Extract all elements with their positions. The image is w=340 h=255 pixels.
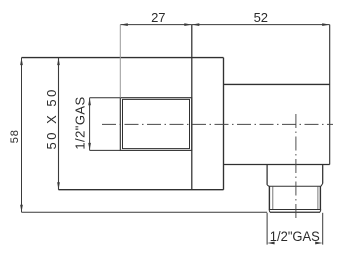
body bottom edge [224, 164, 330, 166]
outlet neck left chamfer [267, 185, 269, 186]
arrow outlet dim left [267, 242, 275, 245]
svg-text:52: 52 [254, 10, 268, 25]
arrow 58 up [20, 58, 23, 66]
wall face line / shared extension of 27 and 52 dims [191, 25, 193, 190]
outlet thread outer left [268, 186, 270, 209]
outlet thread shoulder line [269, 185, 321, 187]
wire top edge of plate with left extension [22, 57, 224, 59]
arrow socket dim down [88, 143, 91, 151]
plate bottom edge [59, 189, 224, 191]
dim line 1/2"GAS socket vertical [89, 98, 91, 151]
outlet bottom chamfer line (inner) [269, 209, 320, 211]
arrow 27 left [120, 23, 128, 26]
outlet neck right chamfer [321, 184, 323, 187]
socket thread inner rect [123, 99, 190, 148]
arrow 58 down [20, 205, 23, 213]
arrow 50 up [57, 58, 60, 66]
outlet thread outer right [319, 186, 321, 209]
outlet thread minor right (thin) [317, 187, 319, 210]
plate side-view right edge [223, 58, 225, 190]
outlet bottom right chamfer [319, 210, 322, 213]
centerline horizontal (dash-dot) [102, 123, 333, 125]
outlet neck right edge [322, 165, 324, 184]
body right edge with 52-dim extension above [329, 25, 331, 165]
arrow socket dim up [88, 98, 91, 106]
socket top extension line [90, 97, 121, 99]
svg-text:27: 27 [151, 10, 165, 25]
outlet thread minor left (thin) [272, 187, 274, 210]
arrow outlet dim right [315, 242, 323, 245]
dim 1/2"GAS outlet left extension [266, 213, 268, 245]
dim 1/2"GAS outlet right extension [322, 213, 324, 245]
svg-text:1/2"GAS: 1/2"GAS [270, 229, 320, 244]
svg-text:58: 58 [9, 129, 21, 143]
arrow 50 down [57, 182, 60, 190]
outlet bottom left chamfer [268, 210, 271, 213]
extension line from outlet bottom to 58 dim [22, 211, 268, 213]
outlet neck left edge [266, 165, 268, 185]
dim 52 line [192, 24, 330, 26]
arrow 27 right [184, 23, 192, 26]
plate front view left edge / 50-dim line [58, 58, 60, 190]
svg-text:50 X 50: 50 X 50 [44, 87, 59, 149]
dim 58 line [21, 58, 23, 213]
arrow 52 left [192, 23, 200, 26]
dim 27 line [120, 24, 192, 26]
svg-text:1/2"GAS: 1/2"GAS [73, 96, 88, 149]
dim 27 left extension (grey) [119, 25, 121, 98]
body top edge [224, 83, 330, 85]
outlet bottom face [270, 211, 320, 213]
socket thread outer rect [120, 98, 192, 151]
arrow 52 right [322, 23, 330, 26]
socket bottom extension line [90, 149, 121, 151]
centerline vertical of outlet (dash-dot) [295, 114, 297, 218]
